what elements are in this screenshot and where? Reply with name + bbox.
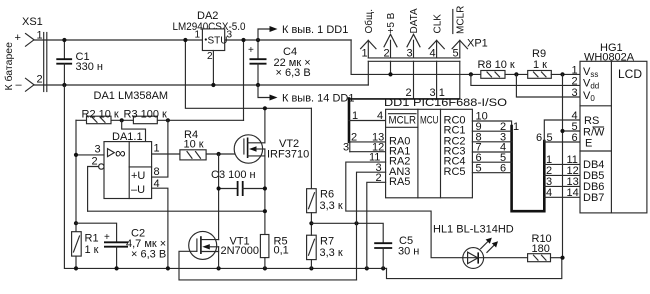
- svg-text:R7: R7: [320, 236, 334, 248]
- svg-text:R6: R6: [320, 189, 334, 201]
- svg-text:5: 5: [476, 162, 482, 174]
- svg-text:+U: +U: [131, 170, 145, 182]
- wire bundle exit 6 to RS: [544, 120, 580, 141]
- svg-text:–: –: [16, 79, 23, 91]
- XP1 pin 2: [384, 12, 398, 59]
- connector XS1 pin 1 contact: [15, 30, 43, 47]
- svg-text:1: 1: [154, 143, 160, 155]
- svg-text:К батарее: К батарее: [3, 42, 15, 91]
- node C3 left: [217, 186, 221, 190]
- svg-text:4: 4: [377, 110, 383, 122]
- wire bundle to MCLR pin 4: [349, 120, 386, 122]
- connector XP1: [368, 38, 487, 62]
- svg-text:+5 В: +5 В: [386, 12, 397, 33]
- wire LED to R10: [463, 257, 528, 259]
- svg-text:3,3 к: 3,3 к: [320, 200, 343, 212]
- wire bundle exit 2 to DB5: [544, 174, 580, 176]
- wire R8 to R9: [505, 73, 528, 75]
- svg-text:× 6,3 В: × 6,3 В: [276, 67, 311, 79]
- resistor R5: [260, 235, 288, 269]
- wire R/W to ground vertical: [563, 130, 581, 132]
- svg-text:RS: RS: [584, 115, 599, 127]
- svg-text:10 к: 10 к: [184, 139, 204, 151]
- node C2 branch: [74, 221, 78, 225]
- svg-text:× 6,3 В: × 6,3 В: [131, 249, 166, 261]
- resistor R6: [307, 108, 343, 223]
- svg-text:1: 1: [362, 48, 368, 60]
- svg-text:E: E: [585, 138, 592, 150]
- svg-text:14: 14: [567, 187, 579, 199]
- wire bundle exit 3 to DB6: [544, 185, 580, 187]
- svg-text:XP1: XP1: [467, 38, 488, 50]
- node battery plus / C1: [62, 38, 66, 42]
- capacitor C2: [76, 223, 166, 268]
- svg-text:3: 3: [343, 142, 349, 154]
- wire +5V top rail from DA2 output: [225, 39, 351, 41]
- wire bundle exit 4 to DB7: [544, 196, 580, 198]
- arrow to pin 1 DD1: [258, 24, 348, 40]
- wire RC0 pin 10 into group bundle: [472, 121, 511, 128]
- resistor R9: [528, 48, 552, 78]
- XP1 pin 3: [407, 8, 421, 60]
- svg-text:+: +: [248, 45, 254, 56]
- svg-text:0,1: 0,1: [274, 245, 289, 257]
- wire ground vertical right: [562, 74, 564, 257]
- node R2 R3 junction: [120, 118, 124, 122]
- bottom rail dots: [74, 266, 78, 270]
- svg-text:STU: STU: [208, 36, 228, 47]
- node VT2 drain battery line: [263, 106, 267, 110]
- resistor R2: [82, 109, 119, 124]
- capacitor C5: [374, 235, 419, 268]
- node R5 top / feedback: [263, 209, 267, 213]
- svg-text:IRF3710: IRF3710: [267, 149, 309, 161]
- node C3 right: [263, 186, 267, 190]
- svg-text:2N7000: 2N7000: [221, 245, 260, 257]
- wire XP1 pin1 to ground rail: [367, 61, 369, 85]
- wire op-amp output pin 1: [152, 153, 180, 155]
- connector XS1 pin 2 contact: [16, 74, 43, 92]
- node R3 right / +U branch: [166, 118, 170, 122]
- svg-text:2: 2: [37, 74, 43, 86]
- wire XP1 pin5 MCLR down to collector: [459, 61, 461, 99]
- svg-text:+: +: [15, 32, 21, 44]
- svg-text:CLK: CLK: [432, 14, 443, 34]
- svg-text:∞: ∞: [115, 145, 126, 162]
- svg-text:5: 5: [453, 48, 459, 60]
- svg-text:1 к: 1 к: [85, 244, 99, 256]
- wire +5V down to XP1 rail: [351, 40, 481, 74]
- svg-text:4: 4: [430, 48, 436, 60]
- wire R2 left down to node: [75, 120, 77, 231]
- svg-text:DA1 LM358AM: DA1 LM358AM: [94, 90, 169, 102]
- svg-text:2: 2: [92, 156, 98, 168]
- wire collector group line: [348, 98, 460, 100]
- XP1 pin 4: [429, 14, 444, 60]
- resistor R1: [72, 232, 99, 269]
- wire VT2 drain up to battery line: [264, 108, 266, 143]
- node R6 R7 divider: [309, 221, 313, 225]
- wire XP1 pin4 CLK down to collector: [436, 61, 438, 99]
- wire R10 to ground vertical: [551, 257, 563, 259]
- wire feedback line to R5 top: [88, 210, 265, 212]
- wire divider line to C5: [311, 223, 383, 243]
- svg-text:К выв. 14 DD1: К выв. 14 DD1: [282, 93, 354, 105]
- svg-text:3,3 к: 3,3 к: [320, 247, 343, 259]
- svg-text:6: 6: [500, 162, 506, 174]
- wire R4 to VT2 gate: [206, 153, 244, 155]
- svg-text:6: 6: [536, 132, 542, 144]
- transistor VT2 IRF3710: [234, 135, 309, 163]
- wire DA2 pin 2 to ground: [212, 51, 214, 86]
- svg-text:R8 10 к: R8 10 к: [478, 59, 515, 71]
- wire V0 branch: [516, 74, 580, 97]
- svg-text:180: 180: [532, 243, 550, 255]
- group bundle vertical to DD1: [348, 99, 351, 142]
- wire VT1 gate to gate line: [179, 251, 357, 280]
- svg-text:R1: R1: [85, 233, 99, 245]
- svg-text:30 н: 30 н: [398, 246, 419, 258]
- node +5V R3 branch: [241, 38, 245, 42]
- wire +5V branch down to R3 line: [243, 40, 245, 120]
- node DA2 pin 2 ground: [211, 83, 215, 87]
- wire left ground vertical: [64, 85, 386, 268]
- svg-text:MCLR: MCLR: [456, 6, 467, 34]
- wire R2 R3 row: [76, 119, 244, 121]
- wire bundle to RA1 pin 12: [350, 151, 386, 153]
- svg-text:3: 3: [407, 48, 413, 60]
- svg-text:DD1 PIC16F688-I/SO: DD1 PIC16F688-I/SO: [384, 97, 508, 109]
- LCD pin numbers: [567, 65, 579, 200]
- resistor R3: [124, 109, 168, 124]
- XP1 pin 1: [361, 9, 376, 60]
- svg-text:1 к: 1 к: [533, 59, 547, 71]
- wire gate node down to VT1 drain: [218, 154, 220, 240]
- wire op-amp pin 4 to ground: [152, 188, 168, 268]
- svg-text:MCU: MCU: [420, 115, 439, 127]
- wire XP1 pin3 DATA down to collector: [413, 61, 415, 99]
- LCD HG1 WH0802A: [580, 42, 647, 213]
- svg-text:DATA: DATA: [409, 8, 420, 34]
- resistor R10: [528, 233, 552, 262]
- svg-text:+: +: [104, 232, 110, 243]
- svg-text:MCLR: MCLR: [389, 115, 417, 127]
- wire AN3 pin 3 to divider: [357, 172, 386, 223]
- capacitor C1: [56, 40, 103, 85]
- microcontroller DD1 PIC16F688-I/SO: [384, 97, 508, 198]
- wire R9 to Vss: [551, 73, 580, 75]
- node +5V C4: [256, 38, 260, 42]
- svg-text:2: 2: [351, 132, 357, 144]
- arrow to pin 14 DD1: [258, 85, 354, 105]
- svg-text:1: 1: [513, 121, 519, 133]
- svg-text:1: 1: [352, 110, 358, 122]
- capacitor C4: [248, 40, 311, 85]
- svg-text:RC5: RC5: [444, 166, 466, 178]
- node AN3 / gate line junction: [354, 221, 358, 225]
- wire R2R3 junction step to op-amp top: [122, 120, 146, 141]
- node ground C4: [256, 83, 260, 87]
- svg-text:2: 2: [384, 48, 390, 60]
- resistor R4: [180, 129, 206, 160]
- svg-text:4: 4: [546, 187, 552, 199]
- wire bottom rail jog right part: [387, 258, 562, 279]
- svg-text:XS1: XS1: [22, 16, 43, 28]
- wire op-amp pin 3 input: [76, 154, 104, 156]
- wire RC3 pin 7 wire 4: [472, 151, 511, 153]
- svg-text:HL1 BL-L314HD: HL1 BL-L314HD: [433, 224, 514, 236]
- svg-text:2: 2: [376, 172, 382, 184]
- node pin3 junction: [74, 153, 78, 157]
- connector XS1 cable double line: [44, 33, 47, 92]
- svg-text:3: 3: [227, 30, 233, 41]
- resistor R8: [478, 59, 515, 78]
- node ground / C1: [62, 83, 66, 87]
- svg-text:–U: –U: [131, 184, 145, 196]
- wire op-amp pin 2 input with inversion circle: [88, 156, 104, 212]
- wire RC1 pin 9 wire 2: [472, 130, 511, 132]
- svg-text:LCD: LCD: [618, 67, 642, 81]
- XP1 pin 5: [452, 6, 467, 60]
- svg-text:Общ.: Общ.: [363, 9, 375, 34]
- svg-text:2: 2: [572, 76, 578, 88]
- wire +5V to R8 and LCD Vdd branch: [469, 72, 473, 76]
- svg-text:RA5: RA5: [389, 176, 410, 188]
- wire battery plus branch down at x185: [185, 40, 311, 108]
- svg-text:5: 5: [547, 132, 553, 144]
- wire RC2 pin 8 wire 3: [472, 141, 511, 143]
- svg-text:R2 10 к: R2 10 к: [82, 109, 119, 121]
- svg-text:6: 6: [572, 132, 578, 144]
- wire bundle exit 5 to E: [544, 141, 580, 143]
- svg-text:8: 8: [154, 166, 160, 178]
- wire ground rail top: [34, 84, 368, 86]
- svg-text:4: 4: [154, 178, 160, 190]
- wire RC4 pin 6 wire 5: [472, 161, 511, 163]
- svg-text:2: 2: [207, 51, 213, 62]
- voltage regulator DA2 LM2940CSX-5.0: [173, 10, 246, 62]
- resistor R7: [307, 223, 343, 268]
- node VT2 gate / C3 / VT1 drain: [217, 152, 221, 156]
- svg-text:DB7: DB7: [583, 192, 604, 204]
- transistor VT1 2N7000: [189, 231, 259, 268]
- svg-text:1: 1: [195, 30, 201, 41]
- node battery branch: [183, 38, 187, 42]
- LED HL1 BL-L314HD: [433, 224, 514, 269]
- op-amp DA1.1: [104, 131, 152, 199]
- wire bundle exit 1 to DB4: [544, 163, 580, 165]
- wire RC5 pin 5 wire 6: [472, 172, 511, 174]
- svg-text:330 н: 330 н: [76, 61, 103, 73]
- wire gate line up to divider node: [356, 223, 358, 280]
- svg-text:3: 3: [95, 144, 101, 156]
- wire RA2 pin 11 to LED: [346, 162, 463, 258]
- wire battery plus rail: [34, 39, 202, 41]
- svg-text:C3 100 н: C3 100 н: [211, 169, 256, 181]
- wire RA5 pin 2 to ground: [367, 182, 386, 268]
- wire XP1 pin2 to +5V: [390, 61, 392, 74]
- group bundle U between DD1 and LCD: [512, 126, 545, 211]
- wire VT2 source down: [264, 156, 266, 235]
- capacitor C3: [211, 169, 265, 196]
- wire bundle to RA0 pin 13: [349, 141, 386, 143]
- svg-text:3: 3: [572, 87, 578, 99]
- svg-text:К выв. 1 DD1: К выв. 1 DD1: [282, 24, 348, 36]
- svg-text:R3 100 к: R3 100 к: [124, 109, 168, 121]
- wire op-amp pin 8 to +U net: [152, 120, 168, 177]
